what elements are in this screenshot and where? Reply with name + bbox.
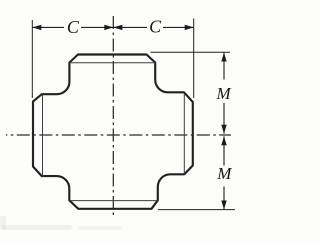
scan smudge left edge [0,216,6,230]
arrow down at centerline (top M) [221,125,226,134]
svg-text:M: M [216,164,232,183]
arrow down at bottom M extension [221,201,226,210]
scan smudge bottom center [78,226,122,230]
left extension line [31,20,33,98]
arrow left at left extension [32,25,41,30]
dimension line M top shaft [223,53,225,134]
bottom M extension line [158,209,235,211]
svg-text:C: C [149,17,162,37]
arrow left at centerline [113,25,122,30]
cross fitting body outline [33,55,193,209]
svg-text:C: C [67,17,80,37]
left arm bevel line [42,95,44,176]
arrow right at centerline [104,25,113,30]
vertical centerline [112,13,114,217]
arrow right at right extension [185,25,194,30]
svg-text:M: M [216,84,232,103]
right arm bevel line [183,93,185,174]
top arm bevel line [70,62,155,64]
right extension line [193,19,195,99]
horizontal centerline [6,134,231,136]
top M extension line [151,51,231,53]
bottom arm bevel line [70,200,158,202]
arrow up at centerline (bottom M) [221,136,226,145]
dimension line M bottom shaft [223,136,225,209]
dimension line C right shaft [113,26,193,28]
scan smudge bottom left [2,225,72,230]
dimension line C left shaft [32,26,113,28]
arrow up at top M extension [221,53,226,62]
